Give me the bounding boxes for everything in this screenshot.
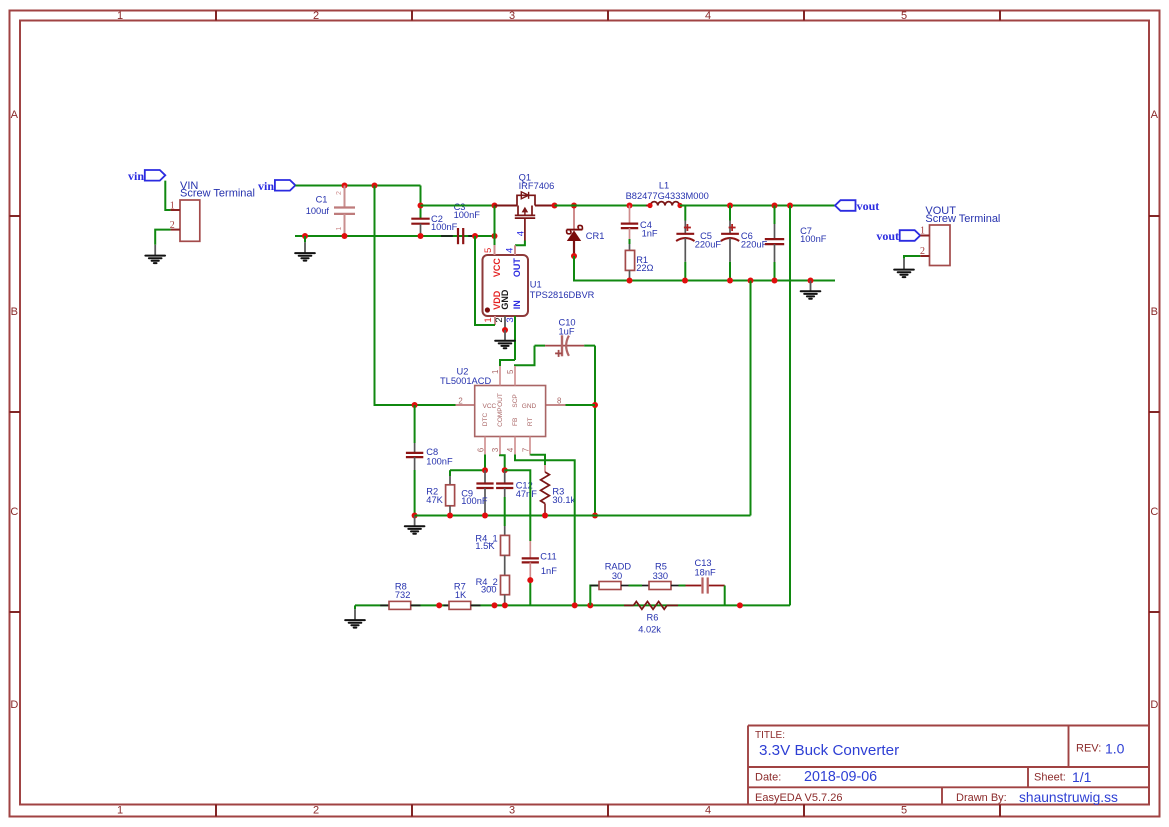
wire output rail (680, 205, 835, 207)
svg-text:C: C (1150, 506, 1158, 518)
node C6 top (727, 203, 733, 209)
svg-text:100nF: 100nF (461, 496, 488, 506)
node C1 top (342, 183, 348, 189)
svg-text:2: 2 (458, 397, 462, 406)
resistor R1 (625, 250, 653, 280)
svg-text:Screw Terminal: Screw Terminal (180, 188, 255, 200)
svg-text:4: 4 (506, 447, 515, 452)
capacitor C2 (411, 206, 457, 237)
transistor Q1 (495, 173, 555, 241)
wire C12 to R4 chain (504, 497, 506, 526)
svg-text:18nF: 18nF (695, 567, 717, 577)
node C7 bottom (772, 278, 778, 284)
svg-text:5: 5 (506, 369, 515, 374)
node Q1 source (552, 203, 558, 209)
svg-text:47K: 47K (426, 495, 443, 505)
svg-text:30.1k: 30.1k (552, 495, 575, 505)
op-amp U2 TL5001ACD (440, 366, 566, 455)
svg-text:1uF: 1uF (559, 327, 575, 337)
node C4 top (627, 203, 633, 209)
ground (U1 pin2) (495, 330, 515, 348)
svg-text:D: D (1150, 699, 1158, 711)
resistor R7 (444, 582, 481, 610)
svg-text:DTC: DTC (482, 413, 489, 427)
svg-text:1: 1 (117, 804, 123, 816)
svg-text:3: 3 (491, 448, 500, 452)
svg-text:TPS2816DBVR: TPS2816DBVR (530, 290, 595, 300)
svg-text:1: 1 (117, 10, 123, 22)
svg-text:OUT: OUT (497, 393, 504, 407)
capacitor C9 (461, 470, 493, 515)
wire vin flag to VIN pin 1 (165, 181, 170, 210)
capacitor C13 (695, 558, 725, 594)
ground (mid rail) (405, 516, 425, 534)
svg-text:100nF: 100nF (454, 210, 481, 220)
svg-text:C: C (10, 506, 18, 518)
svg-text:vout: vout (857, 199, 880, 213)
wire CR1 to output gnd rail (574, 256, 835, 281)
resistor R4_1 (475, 526, 509, 575)
capacitor C5 (676, 206, 721, 281)
svg-text:2018-09-06: 2018-09-06 (804, 769, 877, 785)
wire switch rail left (421, 205, 506, 207)
svg-text:6: 6 (476, 448, 485, 452)
net flag vin (left) (128, 169, 165, 183)
svg-text:5: 5 (901, 10, 907, 22)
svg-text:100uf: 100uf (306, 206, 330, 216)
svg-text:A: A (11, 109, 19, 121)
title block (748, 726, 1149, 806)
svg-text:220uF: 220uF (695, 240, 722, 250)
svg-text:shaunstruwig.ss: shaunstruwig.ss (1019, 790, 1118, 805)
svg-text:D: D (10, 699, 18, 711)
svg-text:300: 300 (481, 585, 497, 595)
svg-text:8: 8 (557, 397, 561, 406)
svg-text:TITLE:: TITLE: (755, 730, 785, 741)
svg-text:EasyEDA V5.7.26: EasyEDA V5.7.26 (755, 792, 842, 804)
svg-text:7: 7 (522, 448, 531, 452)
wire VOUT pin 2 to ground (904, 256, 920, 259)
svg-text:2: 2 (313, 804, 319, 816)
wire COMP to C11 (505, 470, 531, 541)
svg-text:vin: vin (128, 169, 144, 183)
node C3 right (472, 233, 478, 239)
svg-text:1: 1 (920, 225, 925, 236)
wire U2 DTC down (484, 455, 486, 471)
wire U2 SCP to C10 (515, 346, 535, 366)
svg-text:OUT: OUT (512, 258, 522, 278)
node C1 bottom (342, 233, 348, 239)
ground (output rail) (801, 281, 821, 299)
node U2 VCC junction (412, 402, 418, 408)
ground (input rail) (295, 236, 315, 261)
wire VIN pin 2 to ground (155, 230, 170, 245)
resistor R5 (649, 562, 679, 590)
node gnd column bottom (592, 513, 598, 519)
wire vin to U2 VCC (375, 186, 456, 406)
net flag vout (terminal) (876, 229, 920, 243)
resistor R8 (380, 582, 420, 610)
node out-gnd (808, 278, 814, 284)
connector VOUT screw terminal (920, 205, 1000, 265)
wire C13 down (724, 586, 726, 606)
node L1 left (647, 203, 652, 208)
svg-text:L1: L1 (659, 181, 669, 191)
svg-text:4.02k: 4.02k (638, 625, 661, 635)
capacitor C11 (522, 541, 558, 605)
node RADD riser (587, 602, 593, 608)
svg-text:VCC: VCC (483, 403, 497, 410)
svg-text:100nF: 100nF (431, 222, 458, 232)
svg-text:4: 4 (705, 10, 711, 22)
node R7 right (492, 602, 498, 608)
svg-text:2: 2 (494, 317, 505, 322)
wire C10 to gnd column (594, 346, 596, 516)
svg-text:REV:: REV: (1076, 743, 1101, 755)
ground (bottom rail) (345, 605, 365, 627)
svg-text:5: 5 (901, 804, 907, 816)
node VCC tap (492, 203, 498, 209)
capacitor C7 (765, 206, 827, 281)
svg-text:220uF: 220uF (741, 240, 768, 250)
svg-text:COMP: COMP (497, 407, 504, 427)
wire input ground rail (295, 235, 495, 237)
node R8-R7 (436, 602, 442, 608)
net flag vin (rail) (258, 179, 295, 193)
svg-text:47nF: 47nF (516, 489, 538, 499)
svg-text:VCC: VCC (492, 258, 502, 278)
svg-text:1: 1 (483, 317, 494, 322)
node U2 GND pin (592, 402, 598, 408)
wire VCC feed (494, 206, 496, 246)
svg-text:C8: C8 (426, 447, 438, 457)
connector VIN screw terminal (170, 180, 255, 242)
node down-feed (372, 183, 378, 189)
svg-text:B82477G4333M000: B82477G4333M000 (626, 191, 709, 201)
svg-text:3: 3 (509, 804, 515, 816)
node L1 right (677, 203, 682, 208)
svg-text:RADD: RADD (605, 562, 632, 572)
capacitor C6 (721, 206, 768, 281)
svg-text:vin: vin (258, 179, 274, 193)
wire gnd riser (750, 281, 752, 516)
wire U1 IN to U2 OUT (500, 360, 515, 366)
capacitor C8 (406, 405, 453, 516)
svg-text:3.3V Buck Converter: 3.3V Buck Converter (759, 742, 899, 759)
wire vin rail (295, 186, 420, 206)
resistor RADD (590, 562, 631, 590)
svg-text:SCP: SCP (512, 394, 519, 407)
wire U2 GND to column (566, 404, 596, 406)
svg-text:100nF: 100nF (800, 234, 827, 244)
svg-text:1K: 1K (455, 590, 467, 600)
svg-text:B: B (1151, 306, 1158, 318)
resistor R3 (530, 455, 575, 516)
svg-text:GND: GND (522, 403, 537, 410)
svg-text:4: 4 (705, 804, 711, 816)
svg-text:B: B (11, 306, 18, 318)
svg-text:1: 1 (491, 370, 500, 374)
svg-text:Date:: Date: (755, 772, 781, 784)
capacitor C12 (496, 470, 537, 499)
capacitor C3 (441, 202, 480, 244)
svg-text:C11: C11 (540, 551, 556, 561)
wire U2 RT jog (529, 454, 531, 456)
node U1 GND (502, 327, 508, 333)
svg-text:2: 2 (313, 10, 319, 22)
svg-text:1/1: 1/1 (1072, 769, 1092, 785)
node vout branch (787, 203, 793, 209)
svg-text:5: 5 (483, 248, 494, 253)
resistor R4_2 (476, 575, 510, 605)
wire Q1 gate to U1 OUT (515, 241, 525, 246)
svg-text:FB: FB (512, 418, 519, 426)
node R3 bottom (542, 513, 548, 519)
node R1 bottom (627, 278, 633, 284)
svg-text:3: 3 (509, 10, 515, 22)
node C11 pin joint (527, 577, 533, 583)
svg-text:GND: GND (500, 289, 510, 310)
svg-text:C1: C1 (316, 195, 328, 205)
wire switch node rail (555, 205, 651, 207)
node rail joint (737, 602, 743, 608)
diode CR1 (567, 206, 605, 257)
svg-text:4: 4 (516, 231, 527, 236)
node R2 bottom (447, 513, 453, 519)
node C5 bottom (682, 278, 688, 284)
svg-text:U2: U2 (457, 367, 469, 377)
svg-text:3: 3 (505, 317, 516, 322)
node C2 top (418, 203, 424, 209)
svg-text:1: 1 (170, 200, 175, 211)
node input gnd left (302, 233, 308, 239)
wire DTC junction link (450, 469, 485, 471)
node CR1 bottom (571, 253, 577, 259)
svg-text:1.5K: 1.5K (475, 541, 495, 551)
node C8 bottom gnd (412, 513, 418, 519)
capacitor C1 (306, 186, 355, 237)
node COMP-C12 (502, 467, 508, 473)
svg-text:330: 330 (653, 571, 669, 581)
node C2 bottom (418, 233, 424, 239)
svg-text:A: A (1151, 109, 1159, 121)
inductor L1 (626, 181, 709, 206)
node gnd riser (748, 278, 754, 284)
wire vout feedback drop (789, 206, 791, 606)
svg-text:vout: vout (876, 229, 899, 243)
svg-text:IN: IN (512, 300, 522, 309)
svg-text:1nF: 1nF (541, 566, 557, 576)
wire C3 node to U1 VDD (475, 236, 495, 325)
wire bottom rail (355, 604, 790, 606)
svg-text:R5: R5 (655, 562, 667, 572)
svg-text:30: 30 (612, 571, 622, 581)
svg-text:100nF: 100nF (426, 457, 453, 467)
svg-text:2: 2 (920, 246, 925, 257)
node C9 bottom (482, 513, 488, 519)
resistor R6 (624, 602, 678, 635)
svg-text:Screw Terminal: Screw Terminal (925, 213, 1000, 225)
svg-text:RT: RT (527, 418, 534, 427)
wire mid ground rail (415, 515, 751, 517)
svg-text:1.0: 1.0 (1105, 741, 1125, 757)
node R4_2 bottom (502, 602, 508, 608)
svg-text:TL5001ACD: TL5001ACD (440, 376, 491, 386)
ground (VOUT terminal) (894, 259, 914, 277)
svg-text:Sheet:: Sheet: (1034, 772, 1066, 784)
svg-text:22Ω: 22Ω (636, 263, 653, 273)
svg-text:R6: R6 (647, 613, 659, 623)
svg-text:2: 2 (336, 191, 343, 195)
capacitor C10 (535, 317, 596, 357)
svg-text:4: 4 (505, 248, 516, 253)
node FB drop (572, 602, 578, 608)
wire R5 to C13 (679, 585, 702, 587)
node CR1 top (571, 203, 577, 209)
node C7 top (772, 203, 778, 209)
svg-text:732: 732 (395, 590, 411, 600)
wire RADD to R5 (629, 585, 650, 587)
svg-text:U1: U1 (530, 279, 542, 289)
svg-text:C13: C13 (695, 558, 712, 568)
op-amp U1 TPS2816DBVR (483, 245, 595, 360)
node DTC-C9 (482, 467, 488, 473)
node C6 bottom (727, 278, 733, 284)
net flag vout (rail) (835, 199, 879, 213)
svg-text:CR1: CR1 (586, 231, 605, 241)
ground (VIN terminal) (145, 245, 165, 263)
svg-text:1nF: 1nF (642, 229, 658, 239)
svg-text:1: 1 (336, 226, 343, 230)
node VCC drop (492, 233, 498, 239)
wire U2 COMP jog (500, 455, 505, 471)
wire U2 FB to feedback node (515, 455, 575, 606)
svg-text:Drawn By:: Drawn By: (956, 792, 1007, 804)
svg-text:IRF7406: IRF7406 (519, 181, 555, 191)
wire RADD riser (590, 586, 599, 606)
capacitor C4 (621, 206, 658, 251)
resistor R2 (426, 470, 454, 515)
